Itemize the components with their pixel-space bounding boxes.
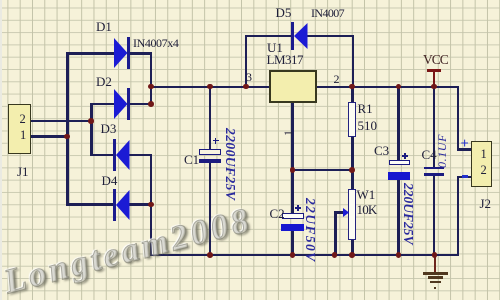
junction J1 pin1 to rail1: [64, 134, 70, 140]
wire rail3 lower vertical: [150, 154, 153, 256]
wire R1 top lead: [351, 86, 354, 103]
label U1: [267, 41, 283, 54]
label W1: [357, 188, 376, 201]
wire rail3 upper vertical: [150, 52, 153, 106]
capacitor C1: [199, 149, 221, 155]
diode D5: [294, 23, 308, 49]
J1 pin 2 number: [20, 113, 26, 126]
label 10K: [357, 203, 377, 216]
wire W1 bottom lead: [351, 239, 354, 255]
connector J1: [8, 104, 31, 154]
wire J1 pin2 to rail2: [31, 120, 92, 123]
junction D2 cathode to rail3: [148, 101, 154, 107]
wire D5 loop left vertical: [245, 35, 248, 87]
J1 pin 1 number: [20, 129, 26, 142]
label IN4007: [311, 7, 344, 19]
junction C3 top on main wire: [396, 84, 402, 90]
plus mark J2: [461, 137, 469, 152]
junction D4 anode to rail3: [148, 202, 154, 208]
diode D2 cathode bar: [127, 88, 130, 120]
value 0.1UF: [436, 134, 448, 168]
junction C3 bottom on bus: [396, 252, 402, 258]
label J1: [17, 165, 29, 178]
label D3: [101, 122, 117, 135]
wire D5 anode horizontal: [245, 35, 292, 38]
value 220UF25V: [401, 183, 415, 245]
capacitor C3: [389, 160, 410, 165]
junction R1 bottom / W1 top: [349, 167, 355, 173]
watermark Longteam2008: [1, 201, 256, 299]
label C4: [422, 148, 437, 161]
junction VCC / C4 on main wire: [431, 84, 437, 90]
wire D2 cathode to rail3: [128, 103, 152, 106]
diode D2: [114, 89, 128, 119]
ground: [434, 255, 437, 273]
junction U1 pin1 node: [290, 167, 296, 173]
wire C4 bottom lead: [433, 175, 436, 255]
wire J2 pin2 return vertical: [457, 176, 460, 257]
wire D1 cathode to corner: [128, 52, 152, 55]
wire U1 pin1 lead: [291, 102, 294, 170]
connector J2: [471, 141, 492, 187]
diode D1 cathode bar: [127, 37, 130, 69]
wire C3 bottom lead: [397, 179, 400, 255]
wire W1 wiper horizontal: [334, 211, 345, 214]
diode D3 cathode bar: [113, 139, 116, 171]
diode D4 cathode bar: [113, 189, 116, 221]
label C1: [184, 153, 199, 166]
wire main output left: [150, 86, 270, 89]
wire D3 anode to rail3: [127, 154, 152, 157]
junction C2 bottom on bus: [290, 252, 296, 258]
wire D4 cathode to rail1: [66, 203, 113, 206]
wire C4 top lead: [433, 86, 436, 168]
junction J1 pin2 to rail2: [88, 118, 94, 124]
junction C1 bottom on bus: [207, 252, 213, 258]
wire ground bus: [150, 254, 459, 257]
junction D5 loop left on main wire: [243, 84, 249, 90]
wire J1 pin1 to rail1: [31, 135, 69, 138]
junction ground on bus: [432, 252, 438, 258]
label D4: [102, 174, 118, 187]
wire D5 cathode horizontal: [307, 35, 354, 38]
wire rail1 left vertical: [66, 52, 69, 206]
wire rail2 vertical: [90, 103, 93, 156]
pin 2 label: [334, 73, 340, 85]
diode D3: [116, 140, 130, 170]
wire D3 cathode from rail2: [90, 154, 114, 157]
junction bridge output on main wire: [148, 84, 154, 90]
junction C1 top on main wire: [207, 84, 213, 90]
wire D4 anode to rail3: [127, 203, 152, 206]
power VCC: [427, 69, 441, 72]
value 2200UF25V: [223, 128, 237, 200]
J2 pin 2 number: [481, 164, 487, 177]
label J2: [480, 197, 492, 210]
label D1: [96, 20, 112, 33]
left edge artifact: [0, 0, 2, 300]
label LM317: [267, 53, 304, 66]
label D2: [96, 75, 112, 88]
capacitor C2: [282, 213, 304, 219]
wire D2 anode from rail2: [90, 103, 114, 106]
wire C2 top lead: [291, 169, 294, 213]
label R1: [358, 102, 373, 115]
wiper arrowhead W1: [343, 208, 349, 217]
wire W1 wiper vertical: [334, 211, 337, 255]
junction D5 loop right / R1 top on main wire: [349, 84, 355, 90]
op-amp U1 LM317 regulator: [269, 70, 317, 103]
wire W1 top lead: [351, 169, 354, 190]
label IN4007x4: [133, 37, 178, 49]
wire D1 anode from rail1: [66, 52, 114, 55]
J2 pin 1 number: [481, 148, 487, 161]
wire C1 bottom lead: [209, 162, 212, 255]
junction W1 wiper on bus: [332, 252, 338, 258]
capacitor C4: [424, 167, 444, 169]
wire pin1 node horizontal: [291, 169, 353, 172]
value 22UF50V: [304, 198, 318, 263]
label C2: [270, 207, 285, 220]
junction W1 bottom on bus: [349, 252, 355, 258]
label 510: [358, 119, 378, 132]
pin 3 label: [246, 71, 252, 83]
potentiometer W1: [348, 189, 356, 240]
diode D1: [114, 38, 128, 68]
wire C2 bottom lead: [291, 231, 294, 256]
diode D4: [116, 190, 130, 220]
wire R1 bottom lead: [351, 136, 354, 170]
wire J2 pin1 feed vertical: [457, 86, 460, 150]
wire main output right: [316, 86, 459, 89]
minus mark J2: [462, 175, 468, 178]
wire C1 top lead: [209, 86, 212, 150]
wire D5 loop right vertical: [352, 35, 355, 87]
wire C3 top lead: [397, 86, 400, 161]
pin 1 label (rotated): [282, 130, 294, 136]
wire J2 pin2 return horizontal: [457, 176, 472, 179]
label C3: [374, 144, 389, 157]
wire J2 pin1 feed horizontal: [457, 148, 472, 151]
resistor R1: [348, 102, 356, 137]
label D5: [276, 6, 292, 19]
diode D5 cathode bar: [291, 22, 294, 50]
